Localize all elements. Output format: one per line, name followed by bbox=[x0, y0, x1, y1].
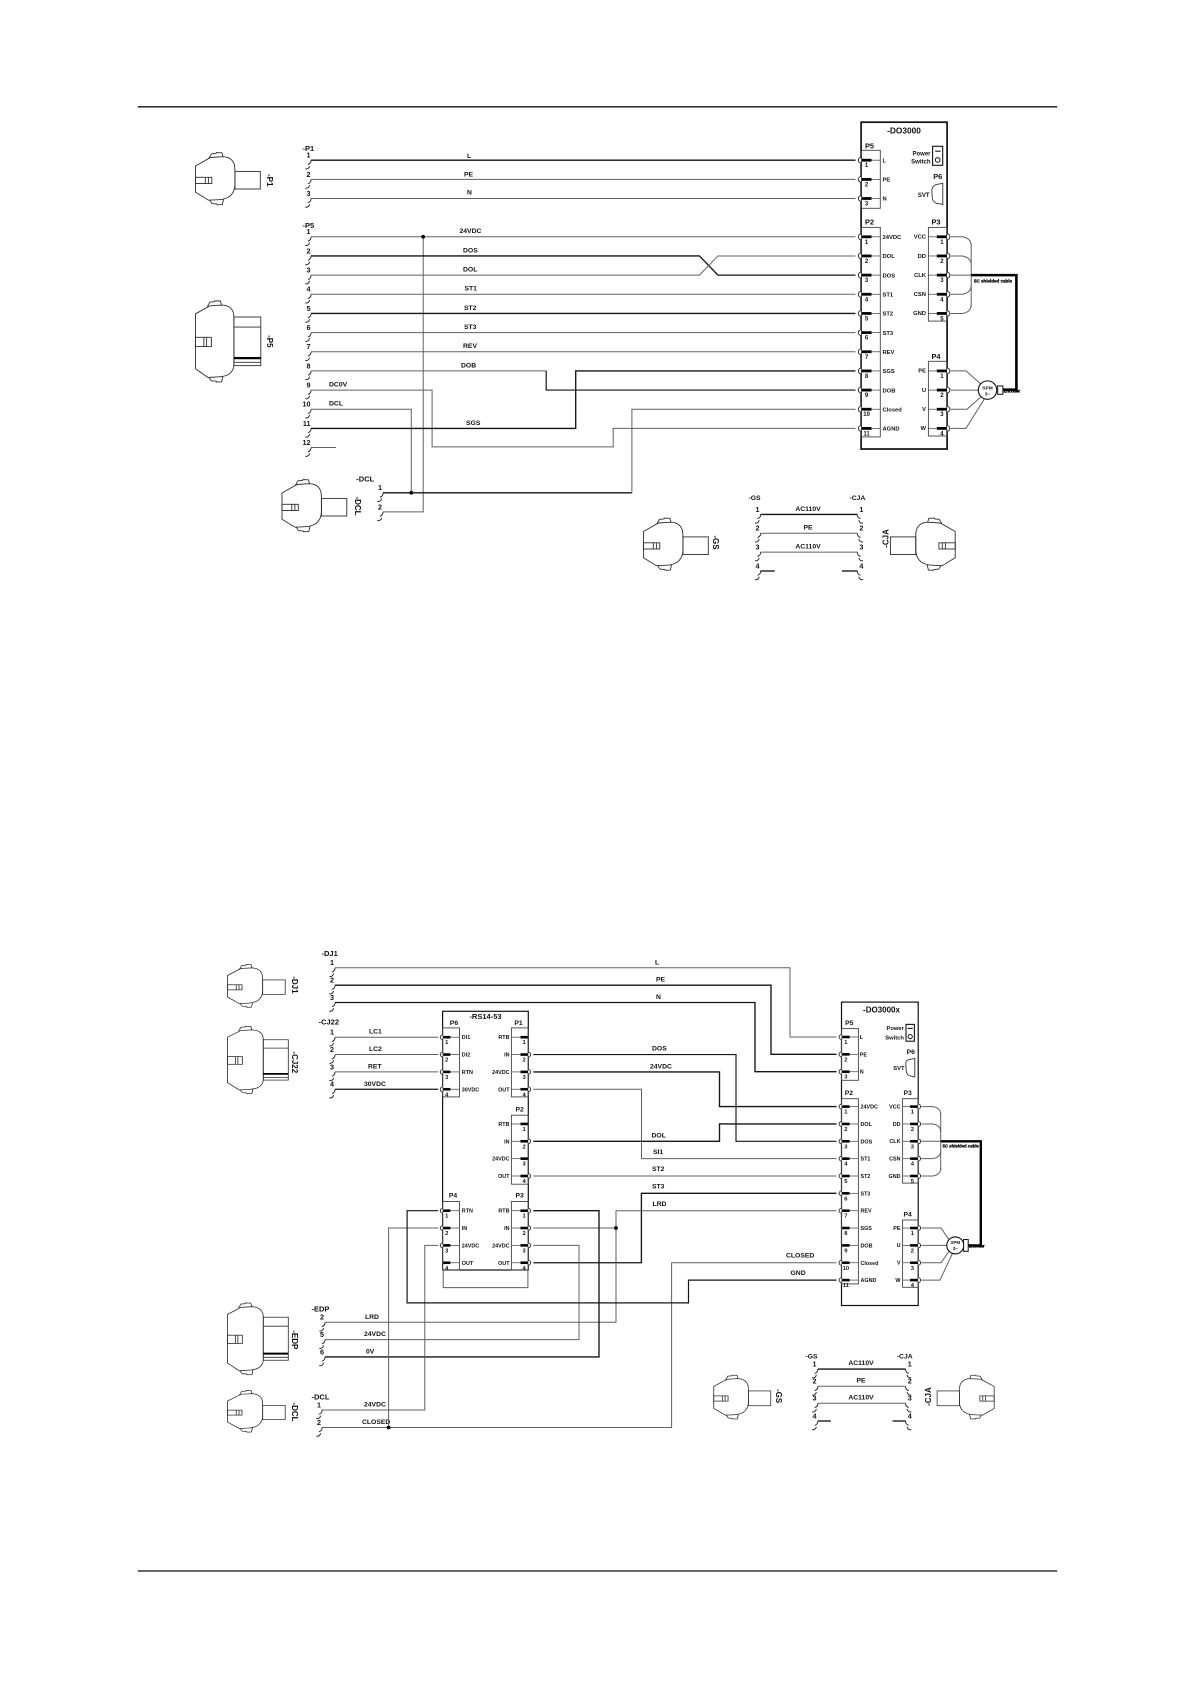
svg-text:10: 10 bbox=[843, 1266, 849, 1272]
svg-text:1: 1 bbox=[859, 505, 863, 514]
svg-text:RTB: RTB bbox=[498, 1209, 509, 1215]
svg-text:CLK: CLK bbox=[889, 1139, 900, 1145]
DO3000 P2 pin 5 (ST2) bbox=[858, 311, 861, 317]
svg-text:IN: IN bbox=[504, 1053, 509, 1059]
wire AC110V (1, bottom) bbox=[818, 1368, 906, 1370]
svg-text:Closed: Closed bbox=[861, 1261, 879, 1267]
wire stubs pin4 bbox=[761, 570, 775, 572]
svg-text:ST2: ST2 bbox=[883, 312, 894, 318]
svg-text:30VDC: 30VDC bbox=[364, 1081, 386, 1088]
svg-text:8: 8 bbox=[307, 361, 311, 370]
svg-text:3: 3 bbox=[307, 266, 311, 275]
svg-text:SI1: SI1 bbox=[653, 1149, 663, 1156]
RS14-53 P2 pin 1 (RTB) bbox=[521, 1123, 528, 1126]
svg-text:4: 4 bbox=[756, 561, 760, 570]
svg-text:GND: GND bbox=[913, 311, 926, 317]
svg-text:DOL: DOL bbox=[463, 267, 477, 274]
wire DOL (bottom) bbox=[533, 1124, 836, 1141]
svg-text:OUT: OUT bbox=[498, 1087, 510, 1093]
DO3000x P2 pin 6 (ST3) bbox=[839, 1191, 841, 1196]
DO3000 P5 pin 1 (L) bbox=[858, 157, 861, 163]
svg-text:P4: P4 bbox=[449, 1193, 458, 1200]
svg-text:AC110V: AC110V bbox=[795, 544, 821, 551]
svg-text:10: 10 bbox=[303, 400, 311, 409]
svg-text:AC110V: AC110V bbox=[848, 1395, 874, 1402]
svg-text:SVT: SVT bbox=[918, 193, 930, 199]
svg-text:P4: P4 bbox=[904, 1211, 913, 1218]
svg-text:P3: P3 bbox=[904, 1090, 913, 1097]
wire stubs pin4 (bottom) bbox=[818, 1420, 831, 1422]
svg-text:SGS: SGS bbox=[466, 420, 481, 427]
svg-text:24VDC: 24VDC bbox=[492, 1243, 509, 1249]
junction node CLOSED bbox=[387, 1426, 391, 1430]
svg-text:3: 3 bbox=[859, 543, 863, 552]
RS14-53 P2 pin 4 (OUT) bbox=[528, 1174, 530, 1179]
svg-text:DCL: DCL bbox=[329, 401, 343, 408]
svg-text:DOB: DOB bbox=[461, 362, 476, 369]
svg-text:DC0V: DC0V bbox=[329, 382, 348, 389]
wire ST1 bbox=[311, 293, 856, 295]
svg-text:7: 7 bbox=[307, 342, 311, 351]
wire GND net bbox=[407, 1211, 836, 1303]
svg-text:P2: P2 bbox=[845, 1090, 854, 1097]
svg-text:3: 3 bbox=[756, 543, 760, 552]
svg-text:4: 4 bbox=[330, 1080, 334, 1089]
svg-text:Encoder: Encoder bbox=[1004, 388, 1021, 393]
svg-text:24VDC: 24VDC bbox=[462, 1243, 479, 1249]
connector -GS plug icon (top) bbox=[643, 518, 708, 570]
DO3000 P4 pin 2 (U) bbox=[947, 387, 950, 393]
svg-text:2: 2 bbox=[320, 1313, 324, 1322]
svg-text:Encoder: Encoder bbox=[969, 1243, 985, 1248]
svg-text:2: 2 bbox=[330, 976, 334, 985]
connector -CJA plug icon (top) bbox=[890, 518, 955, 570]
RS14-53 P1 pin 1 (RTB) bbox=[521, 1036, 528, 1039]
motor SPM 3~ bbox=[978, 381, 996, 399]
svg-text:OUT: OUT bbox=[498, 1261, 510, 1267]
svg-text:ST3: ST3 bbox=[464, 324, 477, 331]
svg-text:REV: REV bbox=[883, 350, 895, 356]
DO3000x P5 pin 3 (N) bbox=[839, 1069, 841, 1074]
DO3000x P4 pin 4 (W) bbox=[918, 1278, 920, 1283]
svg-text:IN: IN bbox=[462, 1226, 467, 1232]
svg-text:Power: Power bbox=[886, 1026, 904, 1032]
svg-text:5: 5 bbox=[307, 304, 311, 313]
DO3000 P3 pin 4 (CSN) bbox=[947, 291, 950, 297]
svg-text:P6: P6 bbox=[907, 1049, 916, 1056]
svg-text:PE: PE bbox=[656, 977, 666, 984]
svg-text:DOL: DOL bbox=[652, 1133, 666, 1140]
svg-text:2: 2 bbox=[522, 1058, 525, 1064]
svg-text:RTB: RTB bbox=[498, 1122, 509, 1128]
svg-text:V: V bbox=[922, 407, 926, 413]
svg-text:1: 1 bbox=[813, 1360, 817, 1369]
svg-text:6: 6 bbox=[320, 1347, 324, 1356]
wire L bbox=[311, 159, 856, 161]
connector -DJ1 plug icon bbox=[227, 965, 285, 1008]
DO3000 P2 pin 10 (Closed) bbox=[858, 406, 861, 412]
svg-text:DD: DD bbox=[918, 254, 926, 260]
svg-text:DD: DD bbox=[893, 1122, 901, 1128]
svg-text:4: 4 bbox=[908, 1411, 912, 1420]
svg-text:ST1: ST1 bbox=[861, 1157, 871, 1163]
svg-text:PE: PE bbox=[464, 171, 474, 178]
svg-text:CSN: CSN bbox=[914, 292, 926, 298]
top horizontal rule bbox=[138, 106, 1057, 108]
svg-text:-DCL: -DCL bbox=[290, 1402, 299, 1421]
wire P3.3 24VDC to EDP 24VDC bbox=[325, 1245, 579, 1339]
DO3000x P5 pin 1 (L) bbox=[839, 1035, 841, 1040]
svg-text:24VDC: 24VDC bbox=[492, 1070, 509, 1076]
DO3000x P5 pin 2 (PE) bbox=[839, 1052, 841, 1057]
wire REV bbox=[311, 351, 856, 353]
RS14-53 P4 pin 3 (24VDC) bbox=[440, 1243, 442, 1248]
DO3000 P2 pin 7 (REV) bbox=[858, 349, 861, 355]
wire N bbox=[311, 198, 856, 200]
svg-text:2: 2 bbox=[813, 1377, 817, 1386]
RS14-53 P6 pin 1 (DI1) bbox=[440, 1035, 442, 1040]
wire PE (GS bottom) bbox=[818, 1385, 906, 1387]
wire SGS with jog bbox=[311, 371, 856, 428]
DO3000 P4 pin 3 (V) bbox=[947, 406, 950, 412]
RS14-53 P6 pin 2 (DI2) bbox=[440, 1052, 442, 1057]
svg-text:CLOSED: CLOSED bbox=[362, 1419, 390, 1426]
DO3000 P4 pin 1 (PE) bbox=[947, 368, 950, 374]
DO3000 P2 pin 1 (24VDC) bbox=[858, 234, 861, 240]
svg-text:RTN: RTN bbox=[462, 1070, 473, 1076]
wire P4.2 IN branch to CLOSED bbox=[389, 1228, 439, 1427]
wire DC0V to AGND bbox=[311, 390, 856, 447]
svg-text:ST3: ST3 bbox=[652, 1184, 665, 1191]
wire LC1 bbox=[335, 1036, 438, 1038]
wire 30VDC bbox=[335, 1088, 438, 1090]
wire AC110V (3) bbox=[761, 551, 858, 553]
svg-text:Closed: Closed bbox=[883, 407, 903, 413]
svg-text:P3: P3 bbox=[932, 217, 941, 226]
wire RET bbox=[335, 1071, 438, 1073]
svg-text:1: 1 bbox=[908, 1360, 912, 1369]
wire DOB with jog bbox=[311, 370, 546, 372]
op-unit -DO3000 enclosure bbox=[861, 122, 947, 449]
connector -CJA plug icon (bottom) bbox=[937, 1375, 994, 1419]
junction node DCL bbox=[409, 491, 413, 495]
svg-text:5C shielded cable: 5C shielded cable bbox=[974, 278, 1013, 283]
RS14-53 P3 pin 1 (RTB) bbox=[528, 1208, 530, 1213]
svg-text:L: L bbox=[467, 153, 471, 160]
svg-text:Switch: Switch bbox=[911, 160, 931, 166]
svg-text:U: U bbox=[897, 1243, 901, 1249]
wire AC110V (1) bbox=[761, 513, 858, 515]
wire AC110V (3, bottom) bbox=[818, 1402, 906, 1404]
svg-text:SPM: SPM bbox=[950, 1240, 960, 1245]
DO3000x P2 pin 10 (Closed) bbox=[839, 1260, 841, 1265]
svg-text:N: N bbox=[860, 1070, 864, 1076]
svg-text:2: 2 bbox=[317, 1418, 321, 1427]
DO3000 P3 pin 1 (VCC) bbox=[947, 234, 950, 240]
svg-text:ST1: ST1 bbox=[465, 286, 478, 293]
RS14-53 P4 pin 2 (IN) bbox=[440, 1226, 442, 1231]
RS14-53 P6 pin 3 (RTN) bbox=[440, 1070, 442, 1075]
DO3000 P3 pin 3 (CLK) bbox=[947, 272, 950, 278]
svg-text:IN: IN bbox=[504, 1139, 509, 1145]
svg-text:PE: PE bbox=[860, 1052, 868, 1058]
svg-text:4: 4 bbox=[859, 561, 863, 570]
svg-text:2: 2 bbox=[307, 246, 311, 255]
wire DOS (crossover) bbox=[311, 256, 856, 275]
DO3000 P2 pin 8 (SGS) bbox=[858, 368, 861, 374]
svg-text:SGS: SGS bbox=[883, 369, 895, 375]
svg-text:DOS: DOS bbox=[883, 273, 896, 279]
wire 24VDC DCL net bbox=[322, 1245, 438, 1410]
wire ST3 bbox=[311, 332, 856, 334]
DO3000 P2 pin 2 (DOL) bbox=[858, 253, 861, 259]
DO3000 P3 pin 2 (DD) bbox=[947, 253, 950, 259]
svg-text:-CJA: -CJA bbox=[850, 495, 866, 502]
wire DCL bbox=[311, 409, 411, 493]
RS14-53 P4 pin 4 (OUT) bbox=[443, 1261, 450, 1264]
junction node LRD bbox=[614, 1226, 618, 1230]
svg-text:DI2: DI2 bbox=[462, 1053, 470, 1059]
svg-text:9: 9 bbox=[307, 380, 311, 389]
svg-text:-GS: -GS bbox=[749, 495, 762, 502]
wire ST2 (bottom) bbox=[533, 1175, 836, 1177]
svg-text:W: W bbox=[921, 426, 927, 432]
RS14-53 P6 pin 4 (30VDC) bbox=[440, 1087, 442, 1092]
svg-text:IN: IN bbox=[504, 1226, 509, 1232]
svg-text:SGS: SGS bbox=[861, 1226, 873, 1232]
svg-text:-DCL: -DCL bbox=[353, 496, 362, 515]
svg-text:2: 2 bbox=[756, 524, 760, 533]
svg-text:1: 1 bbox=[307, 151, 311, 160]
RS14-53 P4 pin 1 (RTN) bbox=[440, 1208, 442, 1213]
svg-text:1: 1 bbox=[330, 958, 334, 967]
svg-text:AC110V: AC110V bbox=[848, 1360, 874, 1367]
wire stub pin 12 bbox=[311, 447, 336, 449]
svg-text:AGND: AGND bbox=[861, 1278, 877, 1284]
svg-text:N: N bbox=[883, 197, 887, 203]
svg-text:2: 2 bbox=[911, 1127, 914, 1133]
DO3000x P3 pin 2 (DD) bbox=[918, 1122, 920, 1127]
junction node 24VDC bbox=[421, 235, 425, 239]
svg-text:P1: P1 bbox=[514, 1020, 523, 1027]
svg-text:11: 11 bbox=[843, 1283, 850, 1289]
svg-text:3: 3 bbox=[813, 1394, 817, 1403]
svg-text:Power: Power bbox=[912, 151, 931, 157]
svg-text:P6: P6 bbox=[933, 172, 942, 181]
svg-text:P3: P3 bbox=[516, 1193, 525, 1200]
svg-text:3~: 3~ bbox=[985, 392, 991, 398]
motor SPM 3~ (bottom) bbox=[947, 1237, 964, 1254]
DO3000 P5 pin 2 (PE) bbox=[858, 177, 861, 183]
wire PE (bottom) bbox=[335, 985, 837, 1054]
svg-text:L: L bbox=[655, 959, 659, 966]
svg-text:1: 1 bbox=[756, 505, 760, 514]
svg-text:2: 2 bbox=[307, 170, 311, 179]
svg-text:OUT: OUT bbox=[498, 1174, 510, 1180]
svg-text:3: 3 bbox=[330, 993, 334, 1002]
svg-text:REV: REV bbox=[861, 1209, 872, 1215]
svg-text:3: 3 bbox=[307, 189, 311, 198]
svg-text:CSN: CSN bbox=[889, 1156, 900, 1162]
connector -CJ22 plug icon bbox=[227, 1026, 288, 1093]
svg-text:10: 10 bbox=[863, 412, 870, 418]
svg-text:-P1: -P1 bbox=[265, 174, 274, 187]
DO3000x P2 pin 2 (DOL) bbox=[839, 1122, 841, 1127]
svg-text:1: 1 bbox=[330, 1028, 334, 1037]
RS14-53 P1 pin 3 (24VDC) bbox=[528, 1070, 530, 1075]
svg-text:24VDC: 24VDC bbox=[883, 235, 903, 241]
svg-text:-RS14-53: -RS14-53 bbox=[469, 1012, 501, 1021]
DO3000 P5 pin 3 (N) bbox=[858, 196, 861, 202]
svg-text:ST2: ST2 bbox=[464, 305, 477, 312]
svg-text:3: 3 bbox=[908, 1394, 912, 1403]
wire CLOSED net bbox=[322, 1263, 837, 1428]
svg-text:-DO3000: -DO3000 bbox=[887, 126, 921, 136]
svg-text:1: 1 bbox=[317, 1400, 321, 1409]
DO3000x P2 pin 9 (DOB) bbox=[842, 1244, 850, 1247]
wire P3.2 IN to LRD junction bbox=[533, 1227, 616, 1229]
svg-text:V: V bbox=[897, 1261, 901, 1267]
wire ST3 (P3.4 OUT) bbox=[533, 1193, 836, 1262]
svg-text:-CJ22: -CJ22 bbox=[290, 1051, 299, 1073]
svg-text:PE: PE bbox=[803, 525, 813, 532]
RS14-53 P1 pin 2 (IN) bbox=[528, 1052, 530, 1057]
wire N (bottom) bbox=[335, 1003, 837, 1072]
svg-text:N: N bbox=[467, 190, 472, 197]
svg-text:RTN: RTN bbox=[462, 1209, 473, 1215]
DO3000 P3 pin 5 (GND) bbox=[947, 311, 950, 317]
motor SPM wires bbox=[951, 371, 981, 384]
svg-text:-DJ1: -DJ1 bbox=[322, 949, 338, 958]
svg-text:PE: PE bbox=[893, 1226, 901, 1232]
svg-text:ST1: ST1 bbox=[883, 292, 894, 298]
svg-text:2: 2 bbox=[844, 1057, 847, 1063]
DO3000x P2 pin 8 (SGS) bbox=[842, 1227, 850, 1230]
DO3000x P4 pin 2 (U) bbox=[918, 1243, 920, 1248]
svg-text:Switch: Switch bbox=[885, 1036, 904, 1042]
svg-text:SVT: SVT bbox=[893, 1066, 905, 1072]
svg-text:2: 2 bbox=[378, 502, 382, 511]
svg-text:1: 1 bbox=[378, 483, 382, 492]
svg-text:P2: P2 bbox=[865, 217, 874, 226]
motor SPM wires (bottom) bbox=[921, 1228, 949, 1240]
svg-text:DI1: DI1 bbox=[462, 1035, 470, 1041]
DO3000x P3 pin 5 (GND) bbox=[918, 1174, 920, 1179]
svg-text:4: 4 bbox=[813, 1411, 817, 1420]
encoder plug bbox=[998, 386, 1003, 394]
svg-text:L: L bbox=[883, 158, 887, 164]
DO3000x P2 pin 11 (AGND) bbox=[839, 1278, 841, 1283]
connector -P1 plug icon bbox=[195, 153, 260, 205]
svg-text:2: 2 bbox=[844, 1127, 847, 1133]
wire P4.4-P3.4 bottom link bbox=[443, 1270, 528, 1288]
svg-text:-EDP: -EDP bbox=[290, 1330, 299, 1350]
svg-text:2: 2 bbox=[911, 1248, 914, 1254]
svg-text:GND: GND bbox=[791, 1270, 806, 1277]
wire LC2 bbox=[335, 1054, 438, 1056]
svg-text:U: U bbox=[922, 388, 926, 394]
wire SI1 (P1.4 OUT to ST1) bbox=[533, 1089, 836, 1158]
RS14-53 P3 pin 4 (OUT) bbox=[528, 1260, 530, 1265]
svg-text:3: 3 bbox=[330, 1062, 334, 1071]
svg-text:ST2: ST2 bbox=[652, 1166, 665, 1173]
DO3000 P2 pin 4 (ST1) bbox=[858, 291, 861, 297]
svg-text:RTB: RTB bbox=[498, 1035, 509, 1041]
svg-text:P4: P4 bbox=[932, 352, 942, 361]
relay-unit -RS14-53 enclosure bbox=[443, 1011, 529, 1270]
svg-text:12: 12 bbox=[303, 438, 311, 447]
bottom horizontal rule bbox=[138, 1570, 1057, 1572]
op-unit -DO3000x enclosure bbox=[842, 1002, 919, 1305]
svg-text:LC2: LC2 bbox=[369, 1046, 382, 1053]
svg-text:GND: GND bbox=[889, 1174, 901, 1180]
svg-text:ST3: ST3 bbox=[861, 1191, 871, 1197]
svg-text:-DCL: -DCL bbox=[356, 475, 374, 484]
svg-text:DOL: DOL bbox=[883, 254, 896, 260]
svg-text:-CJA: -CJA bbox=[924, 1387, 933, 1406]
DO3000 P4 pin 4 (W) bbox=[947, 426, 950, 432]
svg-text:SPM: SPM bbox=[982, 385, 992, 391]
DO3000x P2 pin 5 (ST2) bbox=[839, 1174, 841, 1179]
wire ST2 bbox=[311, 312, 856, 314]
RS14-53 P1 pin 4 (OUT) bbox=[528, 1087, 530, 1092]
svg-text:-CJ22: -CJ22 bbox=[319, 1018, 339, 1027]
svg-text:N: N bbox=[656, 994, 661, 1001]
wire -DCL.1 to Closed bbox=[383, 492, 632, 494]
svg-text:2: 2 bbox=[445, 1231, 448, 1237]
RS14-53 P3 pin 2 (IN) bbox=[528, 1226, 530, 1231]
svg-text:24VDC: 24VDC bbox=[492, 1157, 509, 1163]
DO3000x P4 pin 1 (PE) bbox=[918, 1226, 920, 1231]
DO3000x P2 pin 4 (ST1) bbox=[839, 1156, 841, 1161]
svg-text:0V: 0V bbox=[366, 1348, 375, 1355]
svg-text:24VDC: 24VDC bbox=[364, 1401, 386, 1408]
DO3000x P3 pin 3 (CLK) bbox=[918, 1139, 920, 1144]
RS14-53 P3 pin 3 (24VDC) bbox=[528, 1243, 530, 1248]
DO3000x P2 pin 3 (DOS) bbox=[839, 1139, 841, 1144]
svg-text:P5: P5 bbox=[865, 141, 874, 150]
svg-text:VCC: VCC bbox=[889, 1104, 900, 1110]
svg-text:24VDC: 24VDC bbox=[364, 1331, 386, 1338]
svg-text:PE: PE bbox=[918, 369, 926, 375]
svg-text:PE: PE bbox=[883, 178, 891, 184]
svg-text:ST3: ST3 bbox=[883, 331, 894, 337]
svg-text:DOS: DOS bbox=[463, 247, 478, 254]
DO3000 P2 pin 9 (DOB) bbox=[858, 387, 861, 393]
svg-text:VCC: VCC bbox=[914, 235, 927, 241]
svg-text:DOB: DOB bbox=[861, 1243, 873, 1249]
svg-text:2: 2 bbox=[859, 524, 863, 533]
svg-text:5: 5 bbox=[320, 1330, 324, 1339]
DO3000x P4 pin 3 (V) bbox=[918, 1260, 920, 1265]
svg-text:5C shielded cable: 5C shielded cable bbox=[943, 1143, 980, 1148]
svg-text:REV: REV bbox=[463, 343, 477, 350]
svg-text:2: 2 bbox=[330, 1045, 334, 1054]
svg-text:DOS: DOS bbox=[652, 1045, 667, 1052]
wire P3.1 RTB to EDP 0V bbox=[325, 1211, 599, 1357]
svg-text:AGND: AGND bbox=[883, 427, 900, 433]
wire 24VDC (P1.3) bbox=[533, 1072, 836, 1107]
wire DOS (bottom) bbox=[533, 1055, 836, 1142]
svg-text:-DO3000x: -DO3000x bbox=[863, 1006, 900, 1015]
svg-text:4: 4 bbox=[307, 285, 311, 294]
svg-text:-CJA: -CJA bbox=[881, 529, 890, 548]
svg-text:RET: RET bbox=[368, 1063, 382, 1070]
svg-text:-GS: -GS bbox=[774, 1389, 783, 1404]
svg-text:LC1: LC1 bbox=[369, 1029, 382, 1036]
connector -P5 plug icon bbox=[195, 301, 260, 382]
RS14-53 P2 pin 3 (24VDC) bbox=[521, 1157, 528, 1160]
